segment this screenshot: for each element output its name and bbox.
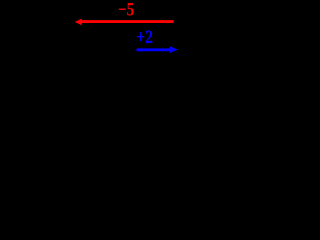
svg-text:+2: +2 <box>136 26 153 48</box>
svg-text:−5: −5 <box>118 0 134 20</box>
